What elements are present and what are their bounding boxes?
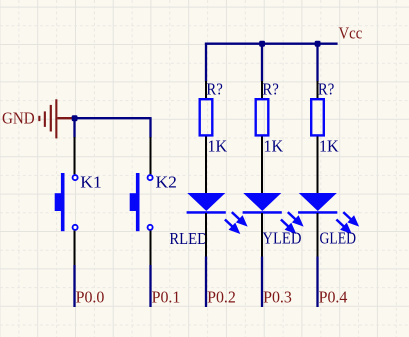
svg-text:1K: 1K: [208, 137, 228, 156]
resistor R2: [256, 99, 269, 135]
svg-text:1K: 1K: [264, 137, 284, 156]
wire LED YLED to P0.3: [261, 257, 263, 308]
wire Vcc power rail: [205, 43, 338, 45]
svg-text:RLED: RLED: [169, 229, 207, 248]
wire LED RLED to P0.2: [205, 257, 207, 308]
switch K2 pin bottom: [150, 231, 152, 266]
power ground symbol: [38, 99, 72, 138]
LED YLED pin bottom: [261, 213, 263, 257]
svg-text:K2: K2: [156, 172, 177, 191]
svg-text:P0.2: P0.2: [207, 288, 236, 307]
switch K1 pin bottom: [74, 231, 76, 266]
wire rail down column 2: [261, 43, 263, 82]
LED YLED: [243, 193, 282, 214]
wire rail down column 3: [316, 43, 318, 82]
svg-text:YLED: YLED: [262, 229, 301, 248]
svg-text:K1: K1: [80, 172, 101, 191]
svg-text:R?: R?: [318, 80, 334, 99]
wire GND node horizontal to K2 column: [72, 117, 151, 119]
svg-text:R?: R?: [262, 80, 278, 99]
wire LED GLED to P0.4: [316, 257, 318, 308]
LED GLED emission arrows: [336, 212, 356, 232]
wire K2 column down: [149, 117, 151, 137]
junction rail column 2: [259, 41, 265, 47]
switch K1 pin top: [74, 137, 76, 174]
svg-text:Vcc: Vcc: [339, 23, 363, 42]
wire GND node down to K1: [73, 117, 75, 137]
svg-text:GND: GND: [2, 109, 35, 128]
switch K2 pin top: [150, 137, 152, 174]
svg-text:P0.0: P0.0: [76, 288, 105, 307]
LED GLED pin bottom: [317, 213, 319, 257]
LED RLED emission arrows: [225, 212, 245, 232]
switch K1: [55, 173, 78, 231]
junction GND node: [72, 115, 78, 121]
resistor R3: [311, 99, 324, 135]
LED RLED pin bottom: [205, 213, 207, 257]
resistor R2 pin bottom / LED D2 pin top: [261, 137, 263, 194]
LED RLED: [187, 193, 226, 214]
resistor R1 pin top: [205, 81, 207, 99]
svg-text:GLED: GLED: [320, 229, 357, 248]
junction rail column 3: [315, 41, 321, 47]
switch K2: [130, 173, 153, 231]
resistor R1: [200, 99, 213, 135]
svg-text:R?: R?: [206, 80, 222, 99]
svg-text:1K: 1K: [319, 137, 339, 156]
resistor R3 pin bottom / LED D3 pin top: [317, 137, 319, 194]
wire K2 to P0.1: [149, 265, 151, 307]
wire rail down column 1: [205, 43, 207, 82]
svg-text:P0.1: P0.1: [152, 288, 181, 307]
resistor R2 pin top: [261, 81, 263, 99]
svg-text:P0.4: P0.4: [319, 288, 348, 307]
LED YLED emission arrows: [281, 212, 301, 232]
wire K1 to P0.0: [73, 265, 75, 307]
resistor R3 pin top: [317, 81, 319, 99]
svg-text:P0.3: P0.3: [263, 288, 292, 307]
LED GLED: [298, 193, 337, 214]
resistor R1 pin bottom / LED D1 pin top: [205, 137, 207, 194]
